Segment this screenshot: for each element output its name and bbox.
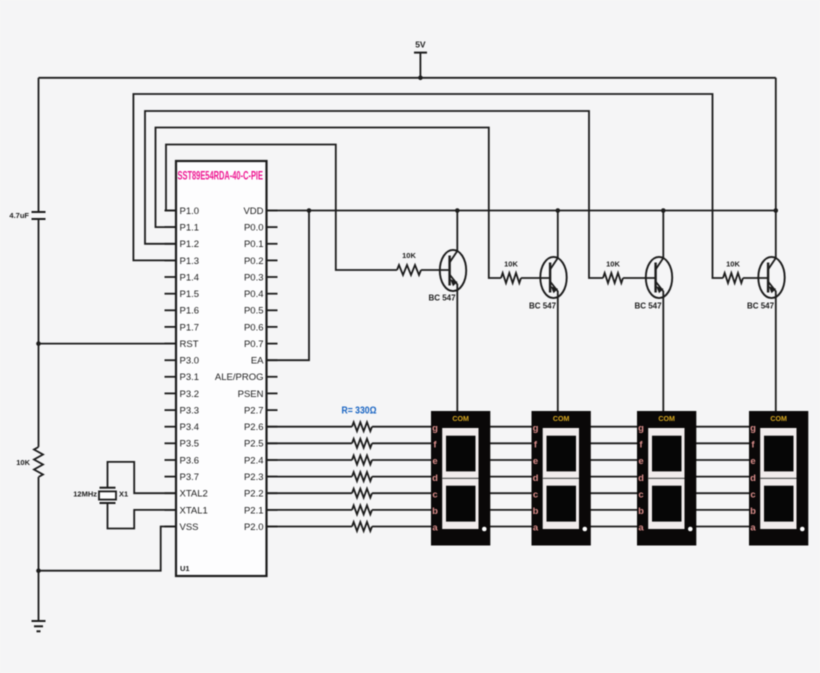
pin P1.6 (U1 left) [165,306,200,317]
wire P2.5 segment bus right [372,442,755,444]
resistor 330 ohm (P2.6) [352,422,372,431]
svg-text:PSEN: PSEN [238,389,264,400]
svg-text:P3.3: P3.3 [180,406,200,417]
svg-text:P2.3: P2.3 [244,472,264,483]
resistor 330 ohm (P2.5) [352,439,372,448]
svg-text:XTAL1: XTAL1 [180,505,208,516]
svg-text:P0.3: P0.3 [244,272,264,283]
pin P0.6 (U1 right) [244,322,278,333]
svg-text:COM: COM [770,414,787,423]
pin P0.5 (U1 right) [244,306,278,317]
wire Q2 collector to VDD rail [557,211,559,259]
svg-text:P1.2: P1.2 [180,239,200,250]
svg-text:P3.2: P3.2 [180,389,200,400]
wire VSS to ground node [39,527,177,571]
svg-text:10K: 10K [16,458,30,467]
crystal X1 12MHz [73,488,128,503]
wire VDD rail [267,210,776,212]
resistor 330 ohm (P2.4) [352,456,372,465]
svg-text:b: b [750,506,756,517]
pin P2.4 (U1 right) [244,455,278,466]
wire P1.3 to Q4 base resistor [133,94,723,278]
resistor 10K (Q2 base) [501,260,521,284]
svg-text:X1: X1 [119,490,128,499]
pin P3.5 (U1 left) [165,439,200,450]
pin P2.7 (U1 right) [244,406,278,417]
pin P0.3 (U1 right) [244,272,278,283]
svg-text:a: a [638,523,644,534]
svg-text:c: c [638,489,643,500]
svg-text:P3.4: P3.4 [180,422,200,433]
resistor 330 ohm (P2.1) [352,505,372,514]
junction Q3 collector node [661,208,666,213]
pin P1.0 (U1 left) [165,206,200,217]
pin P1.7 (U1 left) [165,322,200,333]
pin P2.2 (U1 right) [244,489,278,500]
svg-text:BC 547: BC 547 [529,302,557,311]
ground [32,621,46,631]
svg-text:c: c [432,489,437,500]
svg-text:SST89E54RDA-40-C-PIE: SST89E54RDA-40-C-PIE [178,169,264,183]
svg-text:P2.4: P2.4 [244,455,264,466]
svg-text:P3.1: P3.1 [180,372,200,383]
pin P0.2 (U1 right) [244,256,278,267]
svg-text:EA: EA [251,356,264,367]
svg-text:10K: 10K [504,260,518,269]
7-segment display DIS2 [532,411,591,546]
pin PSEN (U1 right) [238,389,278,400]
svg-text:P1.4: P1.4 [180,272,200,283]
wire RST [39,343,177,345]
pin P2.0 (U1 right) [244,522,278,533]
junction Q2 collector node [556,208,561,213]
svg-text:ALE/PROG: ALE/PROG [215,372,264,383]
svg-text:4.7uF: 4.7uF [9,211,29,220]
pin VSS (U1 left) [165,522,199,533]
resistor 330 ohm (P2.3) [352,472,372,481]
svg-text:P2.2: P2.2 [244,489,264,500]
svg-text:BC 547: BC 547 [747,302,775,311]
pin P3.2 (U1 left) [165,389,200,400]
svg-text:P3.0: P3.0 [180,356,200,367]
transistor Q3 BC 547 [634,257,672,311]
junction Q1 collector node [455,208,460,213]
svg-text:VDD: VDD [243,206,263,217]
pin P2.1 (U1 right) [244,505,278,516]
svg-text:P1.5: P1.5 [180,289,200,300]
svg-text:P3.6: P3.6 [180,455,200,466]
svg-text:U1: U1 [180,564,190,573]
junction Q4 collector node [774,208,779,213]
pin P0.4 (U1 right) [244,289,278,300]
wire P2.2 segment bus right [372,492,755,494]
pin XTAL2 (U1 left) [165,489,208,500]
svg-text:b: b [432,506,438,517]
svg-text:a: a [750,523,756,534]
svg-text:BC 547: BC 547 [634,302,662,311]
svg-text:b: b [638,506,644,517]
wire Q4 emitter to display COM [775,291,777,412]
svg-text:e: e [750,456,755,467]
wire P2.3 segment bus left [267,476,353,478]
junction ground node [36,568,41,573]
junction VDD-EA node [307,208,312,213]
pin ALE/PROG (U1 right) [215,372,278,383]
svg-text:g: g [533,423,539,434]
op-amp U1 (IC SST89E54RDA-40-C-PIE) [176,161,267,576]
wire Q3 collector to VDD rail [662,211,664,259]
svg-text:c: c [533,489,538,500]
wire resistor to Q3 base [623,277,656,279]
pin VDD (U1 right) [243,206,277,217]
svg-text:P2.0: P2.0 [244,522,264,533]
svg-text:VSS: VSS [180,522,199,533]
pin P2.3 (U1 right) [244,472,278,483]
wire resistor to Q4 base [743,277,768,279]
svg-text:g: g [638,423,644,434]
transistor Q2 BC 547 [529,257,567,311]
power 5V supply [414,40,427,78]
wire P1.0 to Q1 base resistor [166,145,397,271]
resistor 330 ohm (P2.0) [352,522,372,531]
svg-text:BC 547: BC 547 [428,294,456,303]
svg-text:P1.0: P1.0 [180,206,200,217]
pin P1.2 (U1 left) [165,239,200,250]
wire EA to VDD [267,211,310,361]
svg-text:g: g [750,423,756,434]
svg-text:COM: COM [553,414,570,423]
svg-text:P0.7: P0.7 [244,339,264,350]
wire left rail from 5V to capacitor [38,78,40,212]
pin P0.7 (U1 right) [244,339,278,350]
resistor 10K (Q1 base) [397,251,421,275]
svg-text:P0.1: P0.1 [244,239,264,250]
junction RST node [36,341,41,346]
svg-text:12MHz: 12MHz [73,489,97,498]
wire resistor to Q2 base [521,277,550,279]
capacitor 4.7uF [9,211,45,220]
resistor 10K pull-down [16,447,43,477]
wire Q3 emitter to display COM [662,291,664,412]
resistor 330 ohm (P2.2) [352,489,372,498]
svg-text:P0.6: P0.6 [244,322,264,333]
wire P1.2 to Q3 base resistor [145,111,603,278]
wire P2.0 segment bus left [267,526,353,528]
svg-text:5V: 5V [415,40,426,50]
pin P1.5 (U1 left) [165,289,200,300]
wire P2.1 segment bus right [372,509,755,511]
svg-text:P0.4: P0.4 [244,289,264,300]
svg-text:d: d [638,473,644,484]
svg-text:P2.6: P2.6 [244,422,264,433]
svg-text:XTAL2: XTAL2 [180,489,208,500]
wire P1.1 to Q2 base resistor [156,128,502,279]
pin RST (U1 left) [165,339,199,350]
svg-text:P1.6: P1.6 [180,306,200,317]
pin P3.4 (U1 left) [165,422,200,433]
resistor 10K (Q3 base) [603,260,623,284]
pin P3.3 (U1 left) [165,406,200,417]
wire P2.4 segment bus left [267,459,353,461]
wire Q2 emitter to display COM [557,291,559,412]
wire resistor to Q1 base [421,269,450,271]
svg-text:P3.5: P3.5 [180,439,200,450]
svg-text:10K: 10K [606,260,620,269]
pin P1.3 (U1 left) [165,256,200,267]
pin P3.7 (U1 left) [165,472,200,483]
svg-text:d: d [750,473,756,484]
svg-text:a: a [432,523,438,534]
wire 5V top rail [39,77,776,79]
svg-text:e: e [432,456,437,467]
pin P1.1 (U1 left) [165,223,200,234]
svg-text:10K: 10K [402,251,416,260]
pin P0.0 (U1 right) [244,223,278,234]
svg-text:P1.3: P1.3 [180,256,200,267]
pin EA (U1 right) [251,356,278,367]
svg-text:d: d [432,473,438,484]
wire P2.6 segment bus left [267,426,353,428]
pin XTAL1 (U1 left) [165,505,208,516]
svg-text:COM: COM [452,414,469,423]
wire P2.0 segment bus right [372,526,755,528]
wire P2.5 segment bus left [267,442,353,444]
svg-text:P1.1: P1.1 [180,223,200,234]
svg-text:R= 330Ω: R= 330Ω [342,405,377,417]
wire left rail 10K to ground node [38,477,40,571]
pin P0.1 (U1 right) [244,239,278,250]
transistor Q4 BC 547 [747,257,785,311]
svg-text:P1.7: P1.7 [180,322,200,333]
resistor 10K (Q4 base) [723,260,743,284]
svg-text:RST: RST [180,339,199,350]
svg-text:e: e [638,456,643,467]
pin P3.0 (U1 left) [165,356,200,367]
svg-text:P2.7: P2.7 [244,406,264,417]
wire left rail capacitor to 10K resistor [38,219,40,447]
wire P2.3 segment bus right [372,476,755,478]
pin P2.6 (U1 right) [244,422,278,433]
junction 5V rail node [418,76,423,81]
svg-text:g: g [432,423,438,434]
pin P1.4 (U1 left) [165,272,200,283]
pin P2.5 (U1 right) [244,439,278,450]
svg-text:P0.0: P0.0 [244,223,264,234]
svg-text:e: e [533,456,538,467]
wire P2.4 segment bus right [372,459,755,461]
wire Q1 emitter to display COM [456,284,458,412]
wire ground node to ground symbol [38,571,40,621]
svg-text:c: c [750,489,755,500]
7-segment display DIS3 [637,411,696,546]
wire Q1 collector to VDD rail [456,211,458,252]
wire 5V rail right drop to VDD rail [775,78,777,211]
svg-text:COM: COM [658,414,675,423]
wire P2.6 segment bus right [372,426,755,428]
svg-text:P2.1: P2.1 [244,505,264,516]
svg-text:P2.5: P2.5 [244,439,264,450]
wire XTAL1 [108,503,177,529]
wire P2.2 segment bus left [267,492,353,494]
wire XTAL2 [108,462,177,493]
svg-text:10K: 10K [726,260,740,269]
wire Q4 collector to VDD rail [775,211,777,259]
pin P3.6 (U1 left) [165,455,200,466]
7-segment display DIS4 [749,411,808,546]
svg-text:b: b [533,506,539,517]
svg-text:P3.7: P3.7 [180,472,200,483]
pin P3.1 (U1 left) [165,372,200,383]
transistor Q1 BC 547 [428,250,466,303]
svg-text:P0.5: P0.5 [244,306,264,317]
svg-text:a: a [533,523,539,534]
7-segment display DIS1 [431,411,490,546]
wire P2.1 segment bus left [267,509,353,511]
svg-text:d: d [533,473,539,484]
svg-text:P0.2: P0.2 [244,256,264,267]
